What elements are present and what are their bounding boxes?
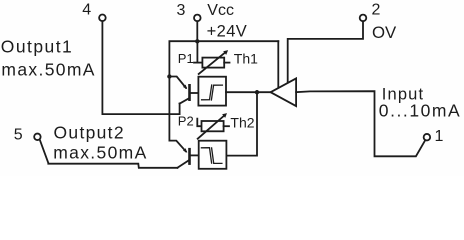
op-amp U1 triangle (271, 78, 297, 106)
terminal 3 circle (194, 15, 201, 22)
transistor Q2 collector (177, 160, 189, 168)
transistor Q1 emitter wire from rail (167, 74, 187, 89)
Input label (382, 86, 424, 104)
Th1 label (234, 50, 258, 66)
max.50mA value label 1 (1, 59, 95, 79)
terminal 2 circle (360, 15, 367, 22)
svg-text:P2: P2 (178, 114, 194, 129)
wire Q2 base to Schmitt trigger 2 (191, 154, 199, 156)
Schmitt trigger 2 hysteresis symbol (201, 148, 222, 164)
svg-text:OV: OV (372, 23, 397, 42)
terminal 3 pin number label (177, 2, 186, 19)
wire P2 right stub (224, 125, 229, 127)
potentiometer P1 body (202, 58, 224, 68)
Vcc label (207, 2, 234, 19)
transistor Q1 collector (180, 98, 189, 103)
0...10mA value label (379, 101, 461, 121)
Schmitt trigger 1 box (198, 77, 226, 106)
terminal 4 circle (99, 14, 106, 21)
wire terminal 2 to amplifier 0V pin (288, 21, 363, 83)
wire Vcc rail to amplifier supply pin (277, 41, 279, 88)
svg-text:4: 4 (82, 2, 91, 19)
svg-text:Th1: Th1 (234, 50, 258, 66)
svg-text:Vcc: Vcc (207, 2, 234, 19)
junction dot Vcc rail (195, 39, 199, 43)
wire terminal 5 to Q2 collector (40, 140, 178, 168)
svg-text:2: 2 (372, 2, 381, 19)
svg-text:+24V: +24V (207, 22, 248, 40)
Output1 label (1, 36, 73, 56)
wire terminal 4 down to output1 run (102, 21, 179, 114)
Th2 label (230, 114, 254, 130)
terminal 5 pin number label (14, 127, 23, 144)
potentiometer P2 arrow (198, 113, 227, 139)
wire Q1 base to Schmitt trigger 1 (191, 92, 199, 94)
svg-text:P1: P1 (178, 51, 194, 66)
max.50mA value label 2 (53, 142, 147, 162)
wire terminal 3 to Vcc rail (196, 21, 198, 41)
wire amplifier input from terminal 1 (296, 91, 425, 156)
terminal 1 circle (424, 134, 431, 141)
transistor Q1 base bar (188, 85, 191, 99)
wire Schmitt 1 output to amplifier node (226, 91, 270, 93)
Schmitt trigger 1 hysteresis symbol (202, 85, 223, 100)
wire Vcc feed to P1 (194, 41, 202, 62)
svg-text:max.50mA: max.50mA (53, 142, 147, 162)
terminal 5 circle (34, 134, 41, 141)
P2 label (178, 114, 194, 129)
potentiometer P1 arrow (199, 50, 228, 74)
+24V value label (207, 22, 248, 40)
Vcc top rail (169, 41, 278, 140)
P1 label (178, 51, 194, 66)
terminal 2 pin number label (372, 2, 381, 19)
Output2 label (54, 122, 125, 142)
transistor Q2 emitter wire from rail (169, 141, 187, 153)
potentiometer P2 body (202, 121, 224, 131)
junction dot amplifier output node (255, 90, 259, 94)
svg-text:5: 5 (14, 127, 23, 144)
OV net label (372, 23, 397, 42)
terminal 4 pin number label (82, 2, 91, 19)
terminal 1 pin number label (435, 128, 444, 145)
wire P1 right stub (224, 62, 229, 64)
Schmitt trigger 2 box (199, 141, 227, 169)
svg-text:0...10mA: 0...10mA (379, 101, 461, 121)
svg-text:Th2: Th2 (230, 114, 254, 130)
svg-text:1: 1 (435, 128, 444, 145)
svg-text:max.50mA: max.50mA (1, 59, 95, 79)
svg-text:Output2: Output2 (54, 122, 125, 142)
wire Vcc feed stub to P2 (197, 119, 201, 127)
wire node down to Schmitt trigger 2 input (226, 92, 257, 155)
svg-text:Output1: Output1 (1, 36, 73, 56)
transistor Q2 base bar (188, 149, 191, 163)
svg-text:3: 3 (177, 2, 186, 19)
